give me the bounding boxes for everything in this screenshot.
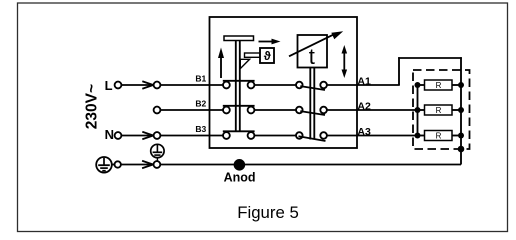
node Anod junction dot xyxy=(234,159,246,171)
svg-text:B2: B2 xyxy=(195,98,206,108)
terminal circle node B1 xyxy=(154,82,161,89)
wire bus to anode line xyxy=(460,149,462,165)
contact T1.2 xyxy=(296,107,327,115)
timer element t box xyxy=(298,35,328,68)
junction dot R1 left xyxy=(415,82,421,88)
wire A1 out xyxy=(327,84,400,86)
svg-text:ϑ: ϑ xyxy=(264,49,271,63)
terminal L circle xyxy=(115,82,122,89)
stub PE2 to wire xyxy=(156,158,158,161)
svg-text:R: R xyxy=(436,131,442,140)
trip direction arrow (up) xyxy=(220,57,222,78)
plug arrow L xyxy=(142,81,153,88)
thermal element lever xyxy=(240,59,249,68)
left bus wire xyxy=(417,85,419,136)
mechanical linkage t xyxy=(309,68,311,140)
svg-text:B3: B3 xyxy=(195,124,206,134)
resistor R2 xyxy=(418,105,462,115)
contact K1.1 xyxy=(223,81,255,89)
anode wire xyxy=(160,164,461,166)
resistor R1 xyxy=(418,80,462,90)
resistor bank enclosure (dashed) xyxy=(413,70,470,149)
resistor R3 xyxy=(418,131,462,141)
wire PE to plug arrow xyxy=(121,164,153,166)
junction dot bus to anode xyxy=(458,146,465,153)
wire A3 out xyxy=(327,135,418,137)
protective earth symbol PE2 xyxy=(151,144,164,157)
junction dot R3 left xyxy=(415,133,421,139)
svg-text:t: t xyxy=(309,44,315,69)
svg-text:230V~: 230V~ xyxy=(83,84,100,129)
wire right bus drop xyxy=(460,57,462,149)
terminal circle PE right xyxy=(154,161,161,168)
thermal element box xyxy=(260,48,274,63)
svg-text:R: R xyxy=(436,106,442,115)
wire A2 out xyxy=(327,109,418,111)
plug arrow PE xyxy=(142,161,153,168)
contact T1.1 xyxy=(296,82,327,90)
svg-text:A2: A2 xyxy=(357,100,371,112)
terminal circle node B2 xyxy=(154,107,161,114)
terminal circle PE left xyxy=(115,161,121,167)
wire B1 into box xyxy=(160,84,223,86)
adjustability arrow through t xyxy=(289,34,334,56)
contact T1.3 xyxy=(296,132,327,141)
svg-text:N: N xyxy=(105,127,114,142)
wire PE1 to terminal xyxy=(112,164,115,166)
mechanical linkage K1 xyxy=(235,41,237,132)
actuator bar of contactor K1 xyxy=(224,36,254,41)
svg-text:B1: B1 xyxy=(195,73,206,83)
terminal N circle xyxy=(115,132,122,139)
wire B2 into box xyxy=(160,109,223,111)
wire N to plug arrow xyxy=(121,135,153,137)
svg-text:A3: A3 xyxy=(357,126,371,138)
wire A1 overpass xyxy=(398,57,462,59)
junction dot R3 right xyxy=(458,133,464,139)
svg-text:Anod: Anod xyxy=(224,171,256,185)
svg-text:Figure 5: Figure 5 xyxy=(237,203,299,222)
contact K1.2 xyxy=(223,106,255,114)
wire row3 mid xyxy=(254,135,296,137)
travel arrow (double head) xyxy=(343,51,345,72)
reset direction arrow (right) xyxy=(259,41,274,43)
wire row2 mid xyxy=(254,109,296,111)
svg-text:L: L xyxy=(105,78,113,93)
wire row1 mid xyxy=(254,84,296,86)
wire B3 into box xyxy=(160,135,223,137)
junction dot R2 left xyxy=(415,107,421,113)
plug arrow N xyxy=(142,132,153,139)
junction dot R2 right xyxy=(458,107,464,113)
protective earth symbol PE1 xyxy=(96,157,112,173)
junction dot R1 right xyxy=(458,82,464,88)
contact K1.3 xyxy=(223,131,255,139)
svg-text:R: R xyxy=(436,81,442,90)
terminal circle node B3 xyxy=(154,132,161,139)
control unit box U1 xyxy=(210,17,358,148)
wire A1 riser xyxy=(398,57,400,85)
svg-text:A1: A1 xyxy=(357,75,371,87)
wire L to plug arrow xyxy=(121,84,153,86)
thermal element link xyxy=(245,53,261,57)
